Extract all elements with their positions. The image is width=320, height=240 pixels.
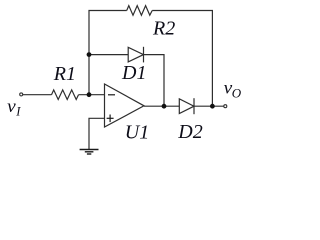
wire D1 cathode down to op-amp output [144, 55, 165, 107]
wire top feedback right segment [152, 11, 212, 107]
svg-text:R2: R2 [152, 18, 175, 40]
svg-text:R1: R1 [53, 63, 76, 85]
diode D2 [179, 99, 194, 114]
wire non-inverting input to ground [89, 118, 105, 149]
wire op-amp output to D2 [144, 105, 179, 107]
resistor R1 [52, 90, 79, 100]
svg-text:U1: U1 [125, 122, 149, 144]
svg-text:vI: vI [7, 96, 21, 118]
resistor R2 [127, 6, 153, 16]
node A junction (inverting input / feedback) [87, 52, 92, 57]
wire input from terminal to R1 [23, 94, 52, 96]
op-amp plus input symbol [107, 115, 114, 123]
node junction at inverting input [87, 92, 92, 97]
diode D1 [128, 47, 143, 62]
input terminal circle [20, 93, 23, 96]
op-amp minus input symbol [108, 94, 115, 96]
wire R1 to inverting input [79, 94, 105, 96]
wire D2 cathode to output terminal [194, 105, 224, 107]
wire D1 anode from node A [89, 54, 128, 56]
node junction at op-amp output [162, 104, 167, 109]
op-amp U1 [105, 84, 145, 127]
svg-text:vO: vO [224, 78, 242, 101]
svg-text:D1: D1 [121, 62, 146, 84]
node junction at output vO [210, 104, 215, 109]
wire top feedback left segment [89, 11, 127, 96]
output terminal circle [224, 105, 227, 108]
svg-text:D2: D2 [177, 121, 202, 143]
ground [80, 150, 99, 155]
